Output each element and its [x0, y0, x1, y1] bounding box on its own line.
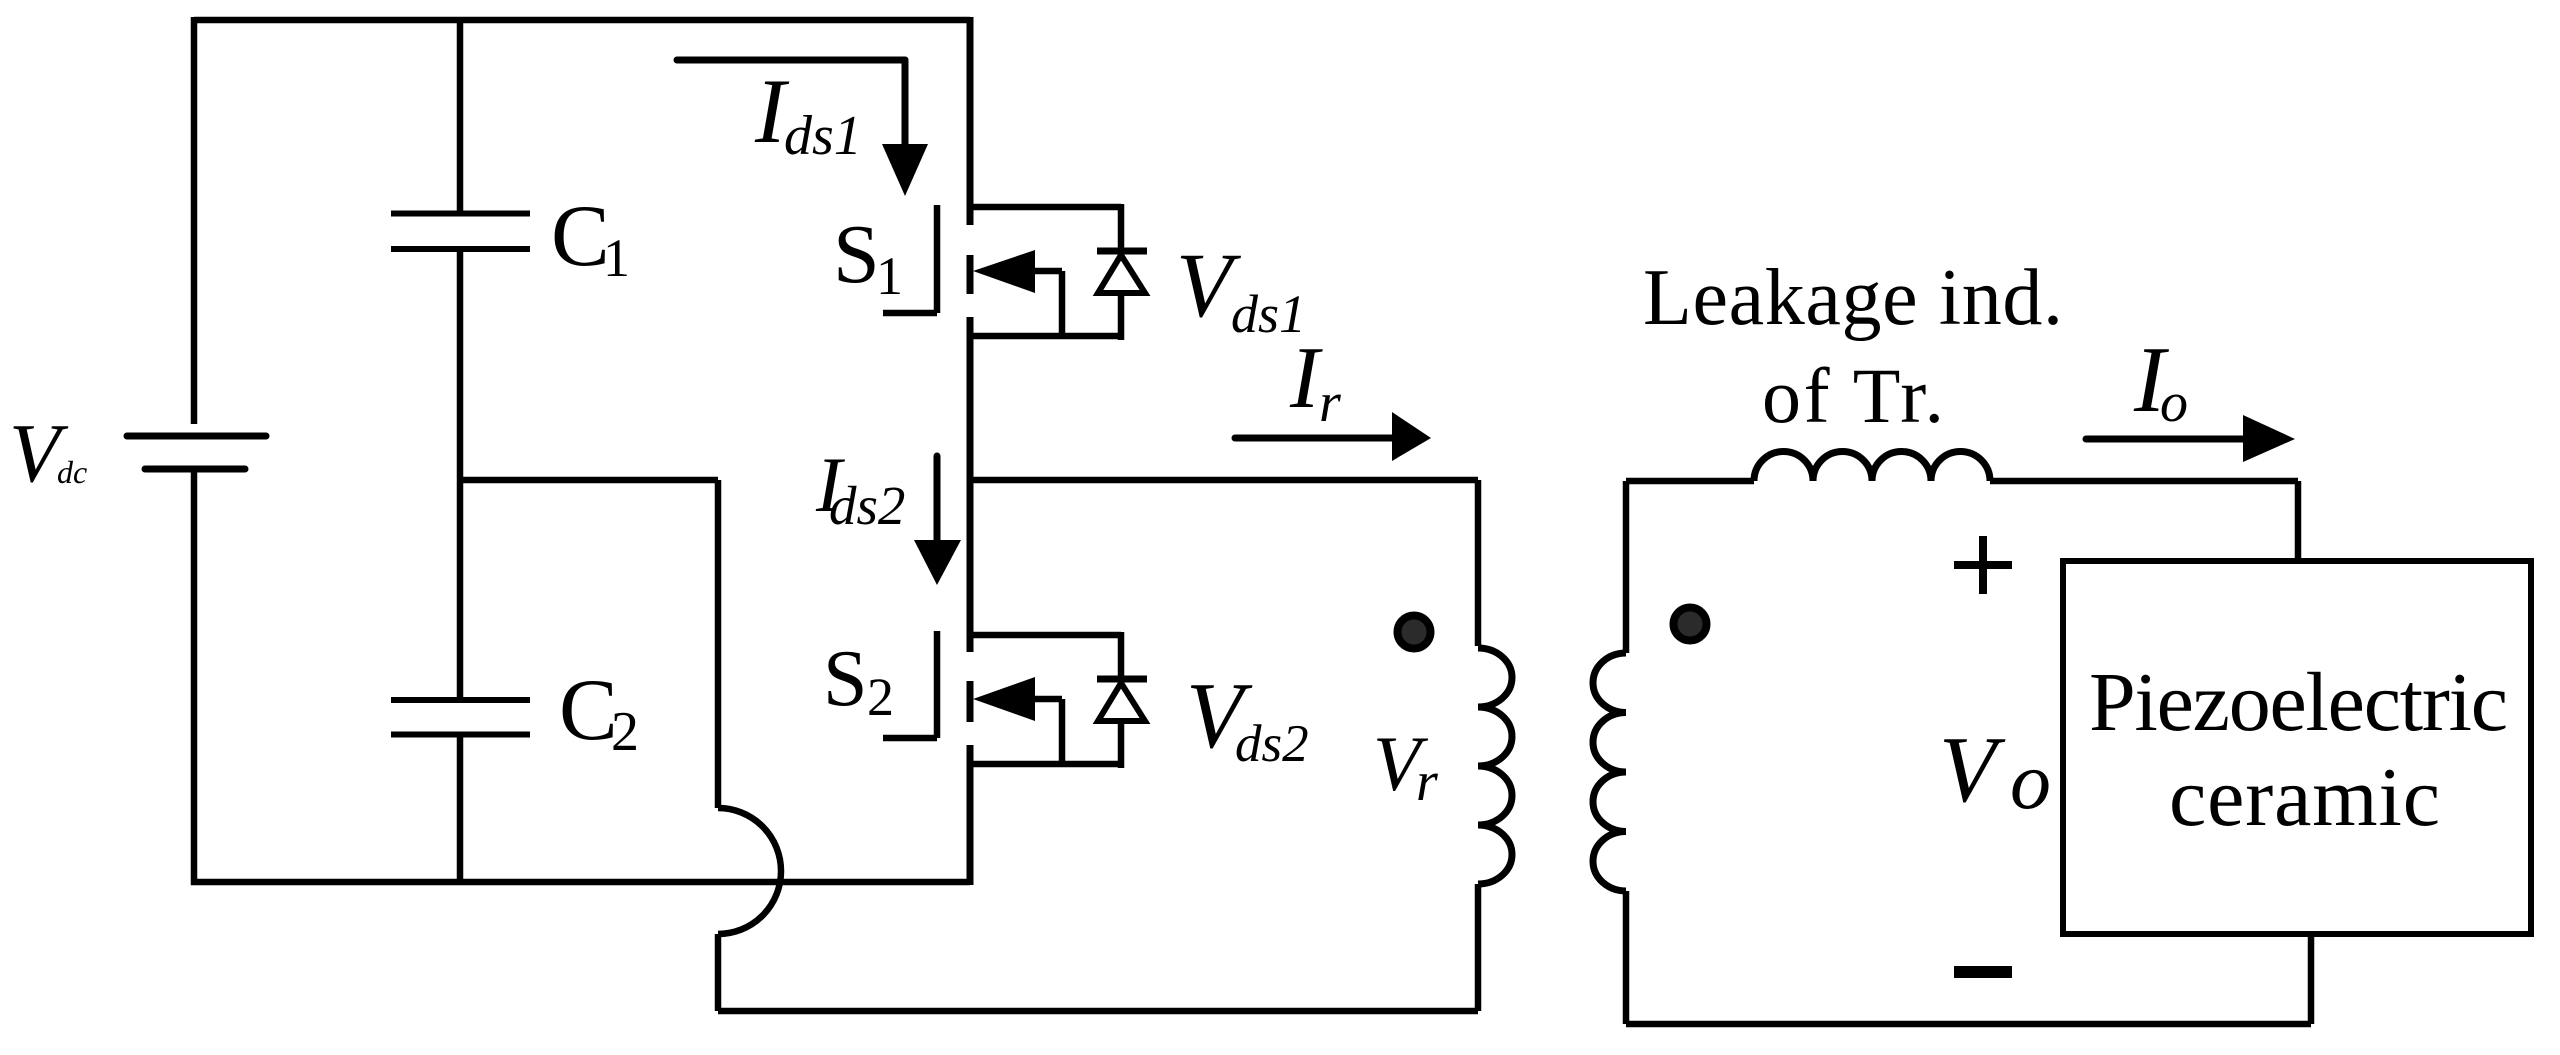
svg-text:C: C — [559, 662, 618, 759]
svg-text:dc: dc — [57, 454, 87, 490]
svg-text:2: 2 — [611, 701, 639, 763]
svg-text:ds2: ds2 — [1235, 715, 1309, 773]
svg-text:S: S — [833, 208, 880, 301]
svg-text:1: 1 — [876, 246, 903, 306]
svg-text:1: 1 — [603, 228, 630, 288]
svg-text:Leakage ind.: Leakage ind. — [1643, 254, 2063, 342]
svg-text:S: S — [823, 635, 868, 723]
svg-text:2: 2 — [867, 667, 894, 727]
svg-text:ds2: ds2 — [829, 475, 905, 536]
svg-text:o: o — [2160, 372, 2188, 434]
svg-text:o: o — [2010, 735, 2051, 826]
svg-text:ds1: ds1 — [1231, 284, 1306, 344]
svg-text:of Tr.: of Tr. — [1762, 352, 1944, 439]
svg-text:I: I — [1289, 330, 1323, 427]
svg-text:r: r — [1416, 751, 1438, 813]
svg-text:ds1: ds1 — [784, 105, 862, 167]
svg-text:C: C — [551, 188, 610, 285]
svg-text:V: V — [1939, 718, 2006, 822]
svg-text:r: r — [1319, 372, 1341, 434]
svg-text:Piezoelectric: Piezoelectric — [2089, 656, 2508, 749]
svg-text:ceramic: ceramic — [2169, 751, 2440, 844]
